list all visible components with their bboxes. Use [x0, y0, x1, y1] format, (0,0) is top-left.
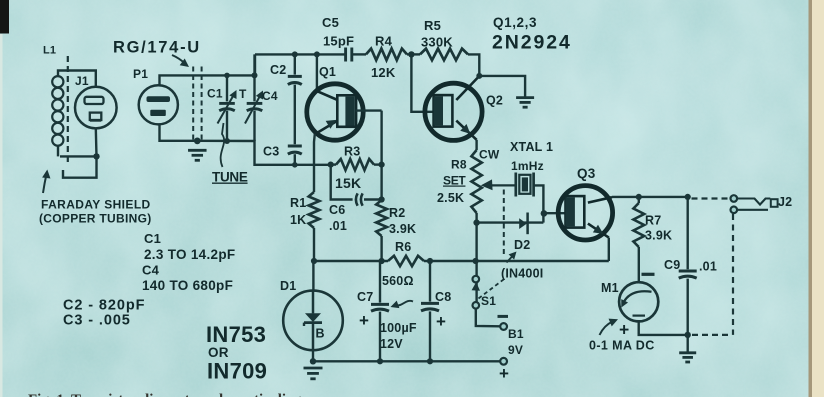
svg-text:+: +: [359, 311, 369, 330]
svg-text:T: T: [239, 87, 247, 101]
svg-text:+: +: [499, 364, 509, 383]
svg-text:B: B: [316, 327, 325, 341]
svg-text:0-1 MA DC: 0-1 MA DC: [589, 339, 655, 353]
svg-text:Q1,2,3: Q1,2,3: [493, 15, 537, 30]
svg-text:C4: C4: [262, 89, 278, 103]
svg-text:(IN400I: (IN400I: [501, 267, 543, 281]
svg-text:R7: R7: [645, 214, 661, 228]
svg-text:XTAL 1: XTAL 1: [510, 140, 553, 154]
svg-text:2.3 TO 14.2pF: 2.3 TO 14.2pF: [144, 247, 235, 262]
svg-text:C8: C8: [435, 290, 451, 304]
svg-text:D2: D2: [514, 238, 530, 252]
svg-text:C6: C6: [329, 203, 345, 217]
svg-text:C2: C2: [270, 63, 286, 77]
svg-text:Q1: Q1: [319, 65, 336, 79]
svg-text:C1: C1: [144, 231, 161, 246]
svg-text:M1: M1: [601, 281, 619, 295]
svg-text:+: +: [619, 320, 629, 340]
svg-text:1mHz: 1mHz: [511, 159, 544, 173]
svg-text:R1: R1: [290, 196, 306, 210]
svg-text:C9: C9: [664, 258, 680, 272]
svg-text:140 TO 680pF: 140 TO 680pF: [142, 278, 233, 293]
svg-text:IN753: IN753: [206, 322, 266, 347]
svg-text:SET: SET: [443, 174, 466, 188]
svg-text:Fig. 1. Transistor dip meter s: Fig. 1. Transistor dip meter schematic d…: [28, 392, 302, 397]
svg-text:3.9K: 3.9K: [389, 222, 416, 236]
svg-text:R2: R2: [389, 206, 405, 220]
svg-text:L1: L1: [43, 45, 56, 57]
svg-text:J2: J2: [778, 195, 792, 209]
svg-text:R5: R5: [424, 18, 441, 33]
svg-text:IN709: IN709: [207, 359, 267, 384]
svg-text:9V: 9V: [508, 343, 523, 357]
svg-text:3.9K: 3.9K: [645, 229, 672, 243]
svg-text:B1: B1: [508, 327, 524, 341]
svg-text:C5: C5: [322, 15, 339, 30]
svg-text:12K: 12K: [371, 65, 396, 80]
svg-text:R3: R3: [344, 145, 360, 159]
svg-text:12V: 12V: [380, 337, 403, 351]
svg-text:C4: C4: [142, 263, 160, 278]
svg-text:J1: J1: [75, 74, 89, 88]
svg-text:R6: R6: [395, 240, 411, 254]
svg-text:TUNE: TUNE: [212, 170, 248, 185]
svg-text:+: +: [436, 312, 446, 331]
svg-text:.01: .01: [329, 219, 347, 233]
svg-text:C3: C3: [263, 145, 279, 159]
svg-text:C2 - 820pF: C2 - 820pF: [63, 298, 145, 314]
svg-text:2.5K: 2.5K: [437, 191, 464, 205]
svg-text:15pF: 15pF: [323, 34, 354, 49]
svg-text:FARADAY SHIELD: FARADAY SHIELD: [41, 198, 151, 212]
svg-text:100µF: 100µF: [380, 321, 417, 335]
svg-text:(COPPER TUBING): (COPPER TUBING): [39, 212, 152, 226]
svg-text:R4: R4: [375, 34, 393, 49]
svg-text:2N2924: 2N2924: [492, 32, 572, 54]
svg-text:P1: P1: [133, 67, 148, 81]
svg-text:RG/174-U: RG/174-U: [113, 39, 201, 57]
svg-text:C3 - .005: C3 - .005: [63, 313, 131, 329]
svg-text:CW: CW: [479, 148, 500, 162]
svg-text:C1: C1: [207, 87, 223, 101]
svg-text:D1: D1: [280, 279, 296, 293]
svg-text:560Ω: 560Ω: [382, 274, 414, 288]
svg-text:Q2: Q2: [486, 94, 503, 108]
svg-text:1K: 1K: [290, 213, 306, 227]
svg-text:330K: 330K: [421, 35, 453, 50]
svg-text:S1: S1: [481, 294, 496, 308]
svg-text:.01: .01: [699, 260, 717, 274]
svg-text:C7: C7: [357, 290, 373, 304]
svg-text:Q3: Q3: [577, 166, 596, 181]
svg-text:R8: R8: [451, 158, 467, 172]
svg-text:15K: 15K: [335, 175, 361, 191]
